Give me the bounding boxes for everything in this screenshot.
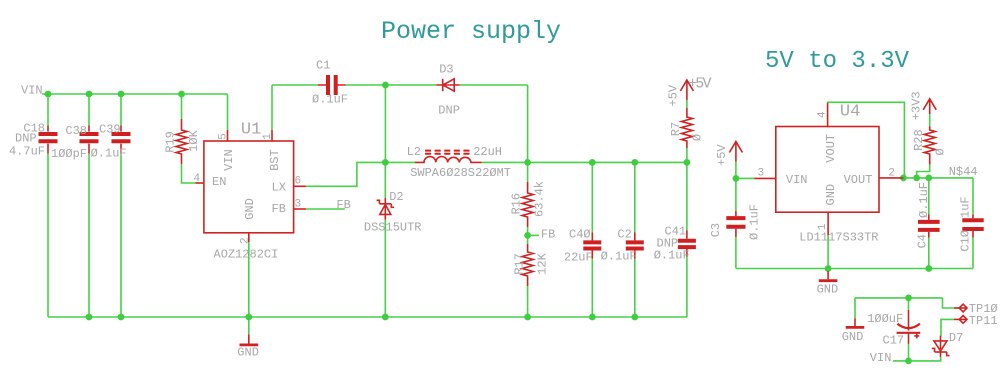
wire LX jog xyxy=(306,162,385,186)
wire R16 top xyxy=(527,162,529,182)
svg-text:R19: R19 xyxy=(164,131,178,153)
node junction D3/R16 mid rail xyxy=(524,159,531,166)
wire C2 column top xyxy=(634,162,636,232)
svg-text:3: 3 xyxy=(758,168,765,180)
wire R17 top xyxy=(527,235,529,244)
wire FB stub right xyxy=(528,234,539,236)
svg-text:1ØØuF: 1ØØuF xyxy=(867,312,903,326)
wire mid rail left of L2 xyxy=(385,161,415,163)
svg-text:+5V: +5V xyxy=(666,84,680,106)
svg-text:C17: C17 xyxy=(883,333,905,347)
node junction C41/R7 mid rail xyxy=(684,159,691,166)
node junction R17 bottom rail xyxy=(524,314,531,321)
svg-text:R28: R28 xyxy=(912,129,926,151)
wire C3 column bottom xyxy=(735,237,737,269)
svg-text:C38: C38 xyxy=(65,124,87,138)
capacitor C4 xyxy=(918,215,940,238)
node junction R19/VIN rail xyxy=(178,91,185,98)
power +3V3 arrow xyxy=(923,99,936,114)
svg-text:GND: GND xyxy=(824,184,838,206)
capacitor C39 xyxy=(112,126,131,154)
wire U4 pin4 to R28 top jog xyxy=(828,102,905,178)
wire TP11 jog xyxy=(941,319,954,336)
svg-text:1ØØpF: 1ØØpF xyxy=(51,147,87,161)
svg-text:+5V: +5V xyxy=(688,76,711,93)
wire GND stub under U4 xyxy=(827,269,829,272)
wire C10 column bottom xyxy=(972,238,974,269)
node junction C2 bottom rail xyxy=(631,314,638,321)
wire U1 pin2 drop xyxy=(248,242,250,317)
ground symbol under U4 xyxy=(819,271,838,281)
svg-text:C1Ø: C1Ø xyxy=(959,230,973,252)
pin 2 U4 VOUT xyxy=(879,177,903,179)
wire C18 column top xyxy=(47,94,49,126)
ground symbol TP section xyxy=(846,318,865,327)
svg-text:U4: U4 xyxy=(840,103,860,122)
node junction LX/D2 xyxy=(382,159,389,166)
svg-text:VIN: VIN xyxy=(870,351,892,365)
wire C38 column top xyxy=(88,94,90,126)
diode D7 schottky xyxy=(932,336,950,357)
wire TP rail xyxy=(855,297,943,299)
resistor R7 xyxy=(681,108,692,148)
pin 2 U1 GND xyxy=(248,233,250,242)
resistor R19 xyxy=(176,119,187,164)
wire C41 column bottom xyxy=(686,257,688,318)
svg-text:L2: L2 xyxy=(407,145,421,159)
svg-text:R16: R16 xyxy=(510,193,524,215)
wire C3 column top xyxy=(735,178,737,211)
wire C39 column top xyxy=(120,94,122,126)
resistor R28 xyxy=(924,126,935,164)
svg-text:VOUT: VOUT xyxy=(844,173,873,187)
svg-text:R17: R17 xyxy=(513,253,527,275)
pin 3 U1 FB xyxy=(294,208,306,210)
svg-text:LX: LX xyxy=(272,181,286,195)
wire C40 column bottom xyxy=(591,259,593,318)
wire C4 column bottom xyxy=(928,238,930,269)
svg-text:Ø.1uF: Ø.1uF xyxy=(917,182,931,218)
node junction C40 mid rail xyxy=(589,159,596,166)
pin 4 U1 EN xyxy=(196,182,204,184)
svg-text:22uF: 22uF xyxy=(564,251,593,265)
capacitor C1 xyxy=(318,75,346,95)
svg-text:FB: FB xyxy=(336,198,350,212)
svg-text:22uH: 22uH xyxy=(473,145,502,159)
capacitor C17 polarized xyxy=(897,310,921,344)
wire C1 left segment xyxy=(272,84,318,86)
svg-text:Ø.1uF: Ø.1uF xyxy=(312,92,348,106)
node junction C39 bottom rail xyxy=(118,314,125,321)
wire R17 bottom xyxy=(527,286,529,317)
node junction +5V/C3/U4 pin3 xyxy=(733,175,740,182)
wire U1 pin1 riser xyxy=(271,85,273,130)
svg-text:N$44: N$44 xyxy=(949,165,978,179)
svg-text:Power supply: Power supply xyxy=(381,17,561,46)
diode D3 xyxy=(437,79,460,91)
pin 5 U1 VIN xyxy=(227,130,229,141)
capacitor C2 xyxy=(626,233,644,259)
wire R28 riser xyxy=(929,114,931,126)
svg-text:BST: BST xyxy=(268,149,282,171)
svg-text:1uF: 1uF xyxy=(959,196,973,218)
pin 1 U1 BST xyxy=(271,130,273,141)
resistor R17 xyxy=(522,244,533,286)
svg-text:+5V: +5V xyxy=(715,144,729,166)
svg-text:Ø.1uF: Ø.1uF xyxy=(91,146,127,160)
pin 6 U1 LX xyxy=(294,185,306,187)
svg-text:Ø: Ø xyxy=(934,148,948,155)
svg-text:D7: D7 xyxy=(949,331,963,345)
wire D3 left segment xyxy=(385,84,436,86)
wire R19 top xyxy=(181,94,183,119)
svg-text:DSS15UTR: DSS15UTR xyxy=(364,220,422,234)
svg-text:GND: GND xyxy=(842,330,864,344)
svg-text:VIN: VIN xyxy=(222,149,236,171)
wire D2 bottom xyxy=(384,220,386,318)
wire C2 column bottom xyxy=(634,259,636,318)
wire U1 pin5 riser xyxy=(227,94,229,130)
svg-text:GND: GND xyxy=(243,198,257,220)
svg-text:GND: GND xyxy=(237,346,259,360)
wire C4 column top xyxy=(928,178,930,215)
node junction C4 bottom xyxy=(925,265,932,272)
wire U4 pin1 drop xyxy=(827,235,829,268)
wire D3 drop to mid rail xyxy=(527,85,529,162)
capacitor C3 xyxy=(726,211,745,237)
svg-text:EN: EN xyxy=(212,175,226,189)
node junction C18/VIN rail xyxy=(45,91,52,98)
testpoint TP11 xyxy=(954,316,967,324)
wire R28 bottom jog xyxy=(917,165,930,178)
wire TP rail left leg to GND xyxy=(854,298,856,318)
wire VIN top rail xyxy=(42,93,228,95)
svg-text:1ØK: 1ØK xyxy=(187,129,201,151)
svg-text:Ø.1uF: Ø.1uF xyxy=(748,204,762,240)
svg-text:C3: C3 xyxy=(709,223,723,237)
wire FB stub at U1 pin3 xyxy=(306,208,345,210)
wire TP10 jog xyxy=(943,298,955,308)
svg-text:FB: FB xyxy=(541,227,555,241)
pin 1 U4 GND xyxy=(827,212,829,235)
svg-text:C2: C2 xyxy=(617,228,631,242)
svg-text:C39: C39 xyxy=(99,122,121,136)
ground symbol under U1 xyxy=(240,334,259,345)
svg-text:5V to 3.3V: 5V to 3.3V xyxy=(765,48,910,75)
wire U4 pin3 segment xyxy=(736,177,754,179)
wire N$44 net xyxy=(903,177,973,179)
svg-text:VIN: VIN xyxy=(786,173,808,187)
svg-text:4.7uF: 4.7uF xyxy=(9,145,45,159)
capacitor C38 xyxy=(80,126,99,154)
svg-text:TP11: TP11 xyxy=(969,314,998,328)
wire C18 column bottom xyxy=(47,154,49,318)
node junction C17/VIN bottom xyxy=(905,358,912,365)
svg-text:C4: C4 xyxy=(916,234,930,248)
svg-text:VOUT: VOUT xyxy=(824,134,838,163)
node FB junction R16/R17 xyxy=(524,232,531,239)
svg-text:12K: 12K xyxy=(536,252,550,274)
svg-text:4: 4 xyxy=(194,173,201,185)
svg-text:C4Ø: C4Ø xyxy=(569,228,591,242)
svg-text:DNP: DNP xyxy=(438,104,460,118)
power +5V arrow (R7) xyxy=(680,80,693,100)
svg-text:Ø: Ø xyxy=(691,134,705,141)
node junction D2 bottom rail xyxy=(382,314,389,321)
node junction GND stub bottom rail xyxy=(245,314,252,321)
wire R7 arrow to resistor xyxy=(686,100,688,108)
wire C41 column top xyxy=(686,162,688,230)
pin 3 U4 VIN xyxy=(754,177,776,179)
wire C39 column bottom xyxy=(120,154,122,318)
wire C17 column bottom xyxy=(908,344,910,361)
svg-text:SWPA6Ø28S22ØMT: SWPA6Ø28S22ØMT xyxy=(410,166,511,180)
node junction R28/N$44 xyxy=(913,175,920,182)
svg-text:63.4k: 63.4k xyxy=(533,181,547,217)
wire C1 right segment xyxy=(346,84,386,86)
inductor L2 xyxy=(415,151,482,163)
svg-text:C1: C1 xyxy=(316,59,330,73)
svg-text:D2: D2 xyxy=(389,190,403,204)
diode D2 schottky xyxy=(377,198,395,220)
svg-text:Ø.1uF: Ø.1uF xyxy=(601,250,637,264)
capacitor C10 xyxy=(962,215,983,238)
svg-text:D3: D3 xyxy=(439,62,453,76)
node junction C38/VIN rail xyxy=(86,91,93,98)
wire U4 bottom rail xyxy=(736,268,973,270)
svg-text:Ø.1uF: Ø.1uF xyxy=(654,249,690,263)
wire GND stub under U1 xyxy=(248,317,250,334)
node junction C1/D3/BST xyxy=(382,82,389,89)
wire C1/D3 junction drop xyxy=(384,85,386,162)
svg-text:6: 6 xyxy=(295,176,302,188)
node junction C40 bottom rail xyxy=(589,314,596,321)
capacitor C41 xyxy=(678,231,696,257)
capacitor C40 xyxy=(583,233,601,259)
node junction C38 bottom rail xyxy=(86,314,93,321)
wire R7 bottom xyxy=(686,148,688,162)
wire +5V arrow to node (U4 input) xyxy=(735,162,737,179)
node junction C39/VIN rail xyxy=(118,91,125,98)
wire C17 column top xyxy=(908,298,910,310)
svg-text:4: 4 xyxy=(817,111,829,118)
wire D2 top xyxy=(384,162,386,198)
wire VIN bottom xyxy=(893,357,941,361)
svg-text:LD1117S33TR: LD1117S33TR xyxy=(799,230,878,244)
svg-text:GND: GND xyxy=(817,282,839,296)
svg-text:2: 2 xyxy=(888,168,895,180)
wire R16 bottom to FB node xyxy=(527,227,529,235)
svg-text:VIN: VIN xyxy=(21,84,43,98)
node junction U4 pin2/pin4 feedback xyxy=(900,175,907,182)
resistor R16 xyxy=(522,182,533,227)
testpoint TP10 xyxy=(954,304,967,312)
svg-text:3: 3 xyxy=(295,199,302,211)
wire mid rail right of L2 xyxy=(482,161,687,163)
wire C10 column top xyxy=(972,178,974,215)
capacitor C18 xyxy=(39,126,58,154)
svg-text:DNP: DNP xyxy=(15,131,37,145)
wire R19 bottom jog to EN pin xyxy=(182,164,196,183)
node junction C17 top xyxy=(905,295,912,302)
svg-text:FB: FB xyxy=(272,202,286,216)
wire C38 column bottom xyxy=(88,154,90,318)
svg-text:1: 1 xyxy=(817,223,829,230)
op-amp U1 body xyxy=(204,141,294,233)
svg-text:R7: R7 xyxy=(669,122,683,136)
pin 4 U4 VOUT top xyxy=(827,103,829,127)
svg-text:AOZ1282CI: AOZ1282CI xyxy=(214,248,279,262)
wire C40 column top xyxy=(591,162,593,232)
wire bottom GND rail xyxy=(48,316,687,318)
svg-text:2: 2 xyxy=(239,237,251,244)
svg-text:5: 5 xyxy=(218,133,230,140)
node junction GND under U4 xyxy=(825,265,832,272)
power +5V arrow (C3) xyxy=(729,142,742,162)
wire D3 right segment xyxy=(460,84,528,86)
svg-text:1: 1 xyxy=(262,133,274,140)
svg-text:+3V3: +3V3 xyxy=(909,91,923,120)
regulator U4 body xyxy=(776,127,879,213)
svg-text:U1: U1 xyxy=(241,121,261,140)
node junction C2 mid rail xyxy=(631,159,638,166)
node junction C4/N$44 xyxy=(925,175,932,182)
